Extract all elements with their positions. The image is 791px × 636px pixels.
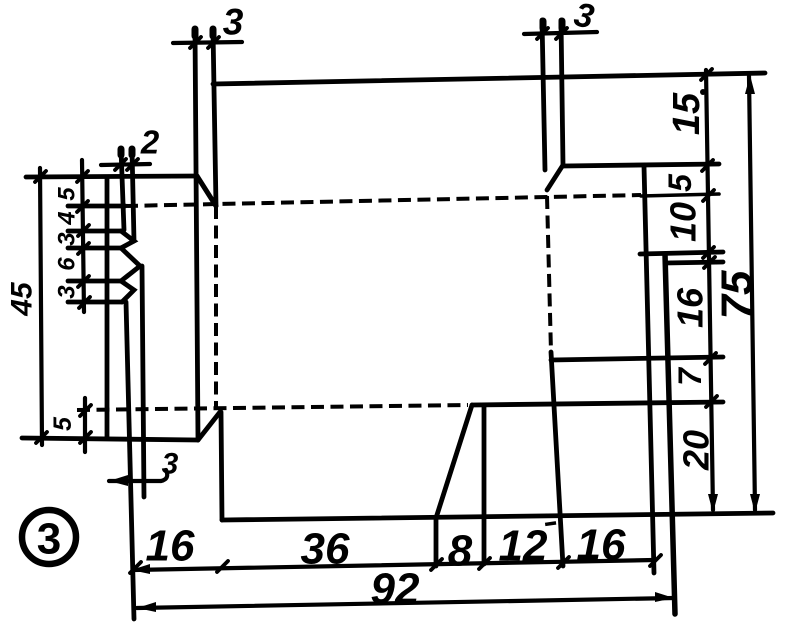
svg-text:36: 36 bbox=[301, 525, 350, 574]
svg-text:20: 20 bbox=[676, 430, 717, 471]
svg-text:92: 92 bbox=[371, 565, 420, 614]
svg-text:2: 2 bbox=[140, 124, 160, 161]
svg-text:75: 75 bbox=[713, 270, 762, 319]
svg-text:5: 5 bbox=[54, 187, 81, 201]
svg-text:15: 15 bbox=[666, 92, 708, 135]
svg-text:3: 3 bbox=[37, 515, 61, 564]
svg-text:4: 4 bbox=[54, 211, 81, 225]
svg-text:45: 45 bbox=[6, 281, 39, 317]
svg-text:5: 5 bbox=[662, 173, 698, 192]
svg-text:6: 6 bbox=[54, 257, 81, 271]
svg-text:5: 5 bbox=[49, 416, 77, 431]
svg-text:16: 16 bbox=[146, 522, 195, 571]
svg-text:16: 16 bbox=[670, 287, 711, 328]
svg-text:3: 3 bbox=[54, 232, 81, 246]
svg-text:10: 10 bbox=[663, 202, 704, 242]
svg-text:3: 3 bbox=[54, 285, 81, 299]
svg-text:8: 8 bbox=[448, 527, 473, 576]
svg-text:16: 16 bbox=[577, 521, 626, 570]
svg-text:7: 7 bbox=[672, 366, 708, 386]
svg-text:12: 12 bbox=[499, 522, 548, 571]
svg-text:3: 3 bbox=[223, 2, 244, 43]
svg-text:3: 3 bbox=[162, 448, 179, 481]
